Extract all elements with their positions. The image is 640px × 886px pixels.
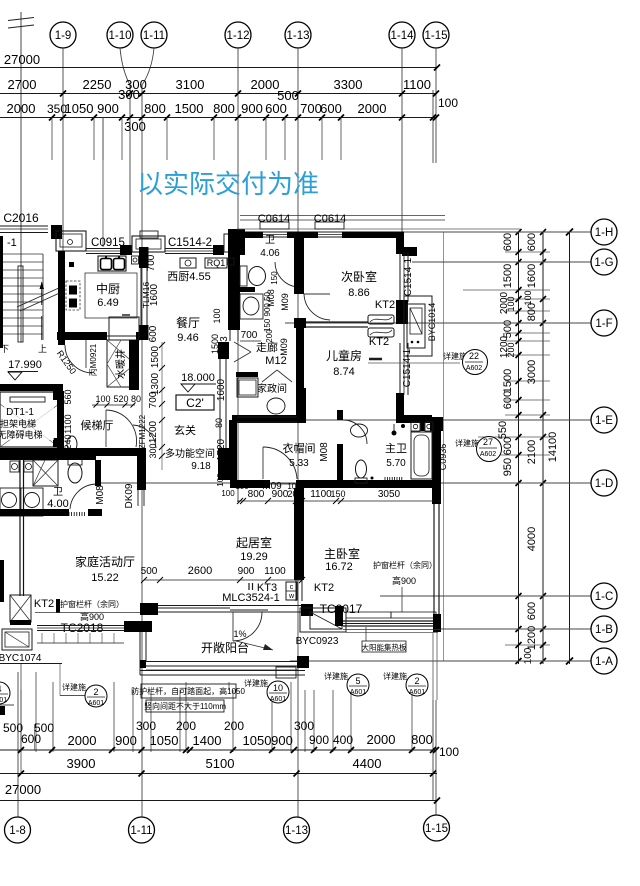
shaft 水暖井 <box>107 340 135 387</box>
svg-text:-1: -1 <box>7 237 17 249</box>
top band y232 with C0614 <box>240 232 263 239</box>
svg-text:1400: 1400 <box>193 733 222 748</box>
wall y599 家庭活动厅 bottom <box>140 603 158 615</box>
svg-text:27000: 27000 <box>5 782 41 797</box>
svg-text:150: 150 <box>330 489 345 499</box>
MLC3524-1 sliding door <box>158 605 302 607</box>
svg-text:900: 900 <box>271 733 293 748</box>
svg-text:餐厅: 餐厅 <box>176 315 200 330</box>
svg-text:无障碍电梯: 无障碍电梯 <box>0 429 43 440</box>
svg-text:100: 100 <box>439 745 459 759</box>
grid bubble 1-8 bottom <box>5 817 31 843</box>
svg-text:A601: A601 <box>350 689 366 696</box>
bottom witness lines <box>20 690 22 752</box>
grid line 1-8 lower <box>17 672 19 817</box>
svg-text:3100: 3100 <box>176 77 205 92</box>
svg-text:A601: A601 <box>270 696 286 703</box>
stair handrail <box>18 266 23 342</box>
svg-text:700: 700 <box>300 101 322 116</box>
stair break line <box>17 287 61 307</box>
svg-text:KT2: KT2 <box>314 582 334 594</box>
svg-text:KT2: KT2 <box>369 336 389 348</box>
elevator DT1-1 <box>0 392 59 447</box>
grid bubble 1-15 <box>423 22 449 48</box>
svg-text:高900: 高900 <box>392 575 416 586</box>
svg-text:C0614: C0614 <box>258 213 290 225</box>
svg-text:5.70: 5.70 <box>386 458 406 469</box>
wall below 家政间 <box>232 415 306 423</box>
svg-text:100: 100 <box>523 647 534 664</box>
svg-text:2700: 2700 <box>8 77 37 92</box>
grid line 1-10 <box>120 48 130 118</box>
svg-text:护窗栏杆（余同）: 护窗栏杆（余同） <box>373 560 437 570</box>
stair up arrow <box>41 282 43 305</box>
grid bubble 1-11 <box>141 22 167 48</box>
svg-text:1-15: 1-15 <box>425 823 448 835</box>
svg-text:1200: 1200 <box>148 420 159 443</box>
svg-text:500: 500 <box>141 566 158 577</box>
svg-text:200: 200 <box>265 329 274 343</box>
svg-text:100: 100 <box>506 296 516 311</box>
svg-text:200: 200 <box>176 719 196 733</box>
wall between 次卧室/儿童房 <box>306 321 368 323</box>
grid bubble 1-G <box>412 261 591 263</box>
svg-text:8.86: 8.86 <box>348 287 369 299</box>
grid bubble 1-A <box>290 660 591 662</box>
儿童房 left wall <box>296 328 304 388</box>
svg-text:A601: A601 <box>409 689 425 696</box>
svg-text:700: 700 <box>148 391 159 408</box>
svg-text:2: 2 <box>414 676 419 686</box>
svg-text:1-13: 1-13 <box>285 825 308 837</box>
bottom-left small marks <box>0 706 5 715</box>
svg-text:1%: 1% <box>233 629 246 639</box>
break symbol top-left <box>20 12 22 342</box>
svg-text:6.49: 6.49 <box>97 297 118 309</box>
svg-text:80: 80 <box>214 418 224 428</box>
svg-text:100: 100 <box>221 489 235 498</box>
svg-text:700: 700 <box>241 330 258 341</box>
svg-text:家庭活动厅: 家庭活动厅 <box>75 554 135 569</box>
svg-text:C1514-2: C1514-2 <box>168 237 212 249</box>
svg-text:3300: 3300 <box>334 77 363 92</box>
衣帽间 top boundary <box>237 416 297 418</box>
svg-text:900: 900 <box>97 101 119 116</box>
wall left of 候梯厅 <box>57 391 64 449</box>
svg-text:1050: 1050 <box>243 733 272 748</box>
svg-text:600: 600 <box>526 233 538 251</box>
grid bubble 1-15 bottom <box>424 815 450 841</box>
TC2018 window band <box>37 625 124 627</box>
wall x129 lower <box>129 340 139 390</box>
卫4.00 door arc <box>70 484 96 509</box>
svg-text:丙M0921: 丙M0921 <box>89 343 98 376</box>
type label C2 box <box>176 395 214 410</box>
frame box B with circle <box>224 234 238 252</box>
svg-text:520: 520 <box>113 394 128 404</box>
svg-text:1-10: 1-10 <box>108 30 131 42</box>
svg-text:27000: 27000 <box>4 52 40 67</box>
svg-text:1-12: 1-12 <box>226 30 249 42</box>
svg-text:1-B: 1-B <box>595 624 613 636</box>
top dimension line 27000 <box>0 67 437 69</box>
grid bubble 1-D <box>96 482 591 484</box>
svg-text:1-11: 1-11 <box>143 30 165 42</box>
svg-text:5100: 5100 <box>206 756 235 771</box>
window frame box A (left of C0915) <box>56 231 86 251</box>
kitchen counter <box>109 317 139 340</box>
衣帽间 door arc <box>263 447 297 479</box>
bath door arc <box>275 262 297 287</box>
svg-text:M08: M08 <box>319 442 330 462</box>
svg-text:3050: 3050 <box>378 489 401 500</box>
wall x228-240 vertical <box>228 237 240 330</box>
svg-text:14100: 14100 <box>547 432 559 463</box>
svg-text:多功能空间: 多功能空间 <box>165 447 215 460</box>
svg-text:卫: 卫 <box>265 235 275 246</box>
svg-text:22: 22 <box>469 351 479 361</box>
svg-text:家政间: 家政间 <box>257 382 287 395</box>
kitchen floor mat <box>85 273 137 318</box>
svg-text:900: 900 <box>309 733 329 747</box>
svg-text:600: 600 <box>148 325 159 342</box>
grid bubble 1-12 <box>225 22 251 48</box>
svg-text:M12: M12 <box>265 355 286 367</box>
svg-text:KT2: KT2 <box>375 299 395 311</box>
svg-text:15.22: 15.22 <box>91 572 119 584</box>
grid bubble 1-13 bottom <box>284 817 310 843</box>
svg-text:1-G: 1-G <box>594 257 613 269</box>
svg-text:1-E: 1-E <box>595 415 613 427</box>
svg-text:BYC1074: BYC1074 <box>0 653 42 664</box>
svg-text:2250: 2250 <box>83 77 112 92</box>
svg-text:C0614: C0614 <box>314 213 346 225</box>
svg-text:4: 4 <box>0 684 2 694</box>
svg-text:800: 800 <box>213 101 235 116</box>
wall top-left C2016 band <box>0 225 48 227</box>
svg-text:4.00: 4.00 <box>47 498 68 510</box>
wall x294 起居/主卧 <box>294 488 304 580</box>
svg-text:1500: 1500 <box>502 369 514 393</box>
svg-text:300: 300 <box>148 443 158 458</box>
parapet lines above top wall <box>240 215 445 217</box>
svg-text:3900: 3900 <box>67 756 96 771</box>
svg-text:以实际交付为准: 以实际交付为准 <box>137 169 319 199</box>
svg-text:2: 2 <box>93 687 98 697</box>
grid line 1-15 lower <box>435 700 437 815</box>
solar panel note <box>365 627 367 641</box>
grid bubble 1-13 <box>285 22 311 48</box>
svg-text:大阳能集热板: 大阳能集热板 <box>362 642 407 652</box>
svg-text:4.06: 4.06 <box>260 248 280 259</box>
svg-text:300: 300 <box>118 87 140 102</box>
svg-text:100: 100 <box>216 473 225 487</box>
wall x294 corridor/次卧室 <box>294 234 304 294</box>
svg-text:中厨: 中厨 <box>96 281 120 296</box>
bottom dim row B <box>0 749 437 751</box>
svg-text:17.990: 17.990 <box>8 359 42 371</box>
svg-text:1-11: 1-11 <box>130 825 152 837</box>
svg-text:2600: 2600 <box>188 565 212 577</box>
svg-text:2000: 2000 <box>358 101 387 116</box>
主卫 bathtub <box>411 432 432 479</box>
window C1514-1 lower (right wall) <box>399 343 401 395</box>
grid line 1-11 <box>142 48 154 118</box>
svg-text:2000: 2000 <box>68 733 97 748</box>
building corner lines to bottom strip <box>432 632 434 700</box>
grid line 1-9 <box>62 48 64 252</box>
svg-text:400: 400 <box>333 733 353 747</box>
svg-text:DK09: DK09 <box>124 483 135 508</box>
候梯厅 door arc <box>106 410 137 447</box>
主卫 door arc <box>343 420 367 444</box>
svg-text:西厨4.55: 西厨4.55 <box>167 270 210 283</box>
svg-text:900: 900 <box>241 101 263 116</box>
svg-text:150 900 50: 150 900 50 <box>263 291 272 332</box>
svg-text:1600: 1600 <box>526 264 538 288</box>
svg-text:MLC3524-1: MLC3524-1 <box>222 592 279 604</box>
主卫 hookup boxes <box>411 422 420 431</box>
西厨 sink + RQ1 <box>180 258 196 268</box>
toilet above wall <box>67 436 77 452</box>
svg-text:3000: 3000 <box>526 360 538 384</box>
svg-text:M09: M09 <box>280 293 290 311</box>
svg-text:1-14: 1-14 <box>390 30 414 42</box>
svg-text:600: 600 <box>526 602 538 620</box>
次卧室 door arc <box>304 294 330 320</box>
svg-text:300: 300 <box>294 719 314 733</box>
svg-text:9.46: 9.46 <box>177 332 198 344</box>
svg-text:300: 300 <box>136 719 156 733</box>
svg-text:2000: 2000 <box>367 732 396 747</box>
M13 door lines <box>234 342 251 352</box>
svg-text:玄关: 玄关 <box>174 423 196 437</box>
grid line 1-12 <box>237 48 239 502</box>
svg-text:RQ1: RQ1 <box>207 258 226 268</box>
svg-text:1600: 1600 <box>149 283 160 306</box>
svg-text:8.74: 8.74 <box>333 366 354 378</box>
kitchen left wall <box>58 251 65 345</box>
wall x139 DK09 <box>137 448 146 490</box>
svg-text:4400: 4400 <box>353 756 382 771</box>
kitchen stove <box>66 281 80 310</box>
svg-text:w: w <box>288 593 295 600</box>
KT2 platform 起居室 <box>301 604 313 616</box>
svg-text:1050: 1050 <box>150 733 179 748</box>
svg-text:详建施: 详建施 <box>62 682 86 692</box>
grid bubble 1-10 <box>107 22 133 48</box>
kitchen right wall x139 <box>139 247 149 268</box>
outer face line right of building <box>443 232 445 661</box>
grid bubble 1-C <box>380 595 591 597</box>
svg-text:起居室: 起居室 <box>236 535 272 550</box>
svg-text:BYC1014: BYC1014 <box>427 303 437 342</box>
window C0915 <box>86 248 120 250</box>
shaft wall double line left <box>19 460 21 596</box>
grid line 1-13 <box>297 48 299 818</box>
svg-text:1-D: 1-D <box>595 478 614 490</box>
svg-text:4000: 4000 <box>526 527 538 551</box>
svg-text:800: 800 <box>526 303 538 321</box>
svg-text:1-C: 1-C <box>595 591 614 603</box>
主卫 basin <box>351 424 368 437</box>
svg-text:C1514-1: C1514-1 <box>403 257 414 296</box>
svg-text:1-15: 1-15 <box>424 30 447 42</box>
svg-text:A601: A601 <box>88 700 104 707</box>
svg-text:M09: M09 <box>262 481 282 492</box>
svg-text:1100: 1100 <box>403 77 431 92</box>
svg-text:竖向间距不大于110mm: 竖向间距不大于110mm <box>144 701 226 711</box>
svg-text:560: 560 <box>63 389 73 404</box>
svg-text:候梯厅: 候梯厅 <box>81 418 114 432</box>
svg-text:16.72: 16.72 <box>325 561 353 573</box>
svg-text:600: 600 <box>502 233 514 251</box>
balcony 开敞阳台 <box>139 622 141 675</box>
bottom dim row C (3900/5100/4400) <box>0 773 437 775</box>
svg-text:M09: M09 <box>279 338 289 356</box>
top dimension line row3 <box>0 117 437 119</box>
主卫 lamp symbols <box>392 431 397 436</box>
wall y509 below bath <box>0 509 69 516</box>
svg-text:80: 80 <box>131 394 141 404</box>
svg-text:1-F: 1-F <box>595 318 612 330</box>
svg-text:卫: 卫 <box>53 487 63 498</box>
left wall edge <box>0 236 3 348</box>
svg-text:2100: 2100 <box>526 440 538 464</box>
衣帽间 left wall <box>229 420 237 480</box>
grid bubble 1-14 <box>389 22 415 48</box>
svg-text:2000: 2000 <box>251 77 280 92</box>
svg-text:1-9: 1-9 <box>55 30 72 42</box>
svg-text:600: 600 <box>502 391 514 409</box>
svg-text:300: 300 <box>124 119 146 134</box>
svg-text:1-13: 1-13 <box>286 30 309 42</box>
wall 次卧室 top right <box>342 232 404 239</box>
M1222 door arc <box>133 425 156 448</box>
主卫 threshold hatch <box>385 477 402 481</box>
toilet 卫4.00 <box>68 463 82 483</box>
wall 衣帽间/主卫 x337 <box>337 410 343 420</box>
主卫 toilet <box>356 460 367 478</box>
svg-text:水暖井: 水暖井 <box>114 349 127 379</box>
right dim vertical lines <box>518 232 520 664</box>
middle frame assembly <box>132 236 165 252</box>
svg-text:27: 27 <box>483 437 493 447</box>
grid bubble 1-H <box>310 231 591 233</box>
wall x218 玄关右 <box>218 342 229 359</box>
pier between windows <box>120 245 132 255</box>
svg-text:详建施: 详建施 <box>244 678 268 688</box>
bath bottom wall <box>240 287 255 292</box>
svg-text:100: 100 <box>95 394 110 404</box>
svg-text:上: 上 <box>38 344 47 354</box>
svg-text:1100: 1100 <box>310 489 332 500</box>
svg-text:A601: A601 <box>0 697 7 704</box>
svg-text:1500: 1500 <box>150 345 161 368</box>
svg-text:担架电梯: 担架电梯 <box>0 418 36 429</box>
grid bubble 1-B <box>437 628 591 630</box>
svg-text:5: 5 <box>355 676 360 686</box>
svg-text:主卫: 主卫 <box>385 442 407 455</box>
svg-text:19.29: 19.29 <box>240 551 268 563</box>
KT2 bay 儿童房 <box>404 296 432 356</box>
wall bottom 候梯厅 <box>0 448 137 456</box>
svg-text:c: c <box>290 584 294 591</box>
door M09 opening <box>268 483 296 485</box>
svg-text:1500: 1500 <box>502 264 514 288</box>
bath toilet <box>249 267 266 286</box>
grid line 1-14 <box>401 48 403 233</box>
svg-text:详建施: 详建施 <box>324 671 348 681</box>
玄关 dim chain line <box>161 342 163 470</box>
svg-text:100: 100 <box>212 308 222 323</box>
svg-text:1100: 1100 <box>63 414 73 433</box>
wall below stairs y384 <box>0 384 63 391</box>
below TC2018 sill ticks <box>41 633 43 643</box>
grid bubble 1-11 bottom <box>129 817 155 843</box>
svg-text:700: 700 <box>146 254 157 271</box>
svg-text:详建施: 详建施 <box>455 438 479 448</box>
top dimension line row2 <box>0 93 437 95</box>
wall below 主卫 y481 <box>230 480 270 488</box>
svg-text:儿童房: 儿童房 <box>326 348 362 363</box>
svg-text:1050: 1050 <box>65 101 94 116</box>
svg-text:2000: 2000 <box>7 101 36 116</box>
svg-text:600: 600 <box>502 437 514 455</box>
kitchen sink <box>98 256 126 271</box>
svg-text:150: 150 <box>270 271 279 285</box>
grid bubble 1-9 <box>50 22 76 48</box>
svg-text:1100: 1100 <box>264 566 286 577</box>
svg-text:600: 600 <box>265 101 287 116</box>
svg-text:800: 800 <box>411 732 433 747</box>
hookup boxes 卫4.00 <box>10 461 19 472</box>
shower 卫4.00 <box>33 460 58 486</box>
grid bubble 1-F <box>285 322 591 324</box>
kitchen hookup top right <box>132 256 139 264</box>
svg-text:600: 600 <box>320 101 342 116</box>
wall step x232 <box>228 229 245 255</box>
right wall 次卧室 upper <box>396 236 404 254</box>
svg-text:护窗栏杆（余同）: 护窗栏杆（余同） <box>60 599 124 609</box>
bath basin <box>240 294 263 319</box>
threshold hatch <box>69 512 85 516</box>
balcony left end post <box>140 660 146 668</box>
svg-text:600: 600 <box>21 732 41 746</box>
svg-text:1-H: 1-H <box>595 227 614 239</box>
svg-text:BYC0923: BYC0923 <box>296 636 339 647</box>
svg-text:C2016: C2016 <box>3 211 39 225</box>
window C1514-1 upper (right wall) <box>399 252 401 302</box>
svg-text:1500: 1500 <box>175 101 204 116</box>
svg-text:M08: M08 <box>95 485 106 505</box>
right exterior wall 主卫/主卧 <box>432 428 441 504</box>
svg-text:10: 10 <box>273 683 283 693</box>
right dim witness + ticks <box>505 231 550 233</box>
svg-text:C0936: C0936 <box>438 444 448 471</box>
window C1514-2 <box>165 248 213 250</box>
KT unit tall box <box>10 595 31 622</box>
wall 主卫 top <box>396 415 432 423</box>
svg-text:1-8: 1-8 <box>9 825 26 837</box>
svg-text:次卧室: 次卧室 <box>341 269 377 284</box>
KT unit horizontal box <box>2 629 32 650</box>
svg-text:950: 950 <box>502 458 514 476</box>
svg-text:ZFM1222: ZFM1222 <box>138 414 147 449</box>
right pier <box>213 245 224 255</box>
svg-text:100: 100 <box>438 96 458 110</box>
svg-text:200: 200 <box>224 719 244 733</box>
